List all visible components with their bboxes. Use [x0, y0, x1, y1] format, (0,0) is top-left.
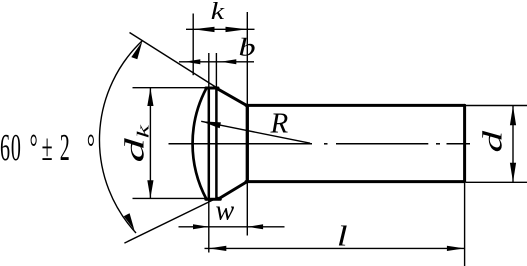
svg-text:l: l — [337, 220, 348, 252]
k left arrow — [193, 27, 214, 32]
band1 lower extension line — [208, 199, 210, 252]
head-shank junction edge — [246, 105, 249, 181]
dk bottom extension line — [133, 197, 209, 199]
w dimension line — [179, 226, 285, 228]
angle dimension arc — [99, 41, 142, 234]
k left extension line — [192, 14, 194, 76]
junction lower extension line — [246, 182, 248, 236]
w right arrow — [247, 224, 263, 229]
head band line 1 — [208, 88, 211, 199]
dk bottom arrow — [147, 180, 153, 198]
dk top arrow — [147, 88, 153, 106]
R leader arrow — [201, 121, 221, 128]
band2 upper extension line — [215, 53, 217, 88]
upper 60deg construction line — [130, 33, 219, 89]
dk dimension line — [149, 88, 151, 198]
dk top extension line — [133, 87, 211, 89]
d top extension line — [466, 105, 527, 107]
svg-text:d: d — [478, 130, 508, 153]
d top arrow — [510, 106, 516, 126]
head bottom edge — [206, 198, 221, 201]
b right arrow — [221, 59, 237, 64]
lower 60deg construction line — [124, 197, 218, 243]
cone bottom edge — [218, 182, 247, 200]
svg-text:R: R — [270, 108, 289, 140]
d dimension line — [512, 106, 514, 182]
angle arc bottom arrow — [124, 213, 135, 230]
centerline (dash-dot axis) — [169, 143, 471, 145]
l dimension line — [205, 247, 465, 249]
b dimension line — [179, 61, 254, 63]
d bottom extension line — [466, 181, 527, 183]
head crown arc — [193, 88, 207, 199]
b left arrow — [185, 59, 201, 64]
cone top edge — [216, 88, 247, 106]
head band line 2 — [215, 88, 218, 199]
svg-text:k: k — [211, 0, 225, 24]
d bottom arrow — [510, 163, 516, 183]
k right arrow — [226, 27, 248, 32]
R leader line — [201, 121, 310, 143]
shank bottom edge — [246, 180, 465, 183]
band1 upper extension line — [208, 53, 210, 88]
shank top edge — [246, 104, 465, 107]
extension and dimension lines (thin) — [99, 12, 527, 266]
l left arrow — [209, 246, 227, 251]
rivet body outline — [193, 88, 465, 199]
junction upper extension line — [246, 12, 248, 104]
w left arrow — [193, 224, 209, 229]
svg-text:w: w — [216, 196, 235, 227]
svg-text:b: b — [239, 33, 256, 62]
l right arrow — [447, 246, 465, 251]
angle arc top arrow — [131, 41, 142, 59]
arrowheads — [124, 27, 516, 251]
shank end edge — [463, 105, 466, 181]
k dimension line — [186, 28, 255, 30]
shank end lower extension line — [464, 182, 466, 266]
head top edge — [206, 87, 218, 90]
